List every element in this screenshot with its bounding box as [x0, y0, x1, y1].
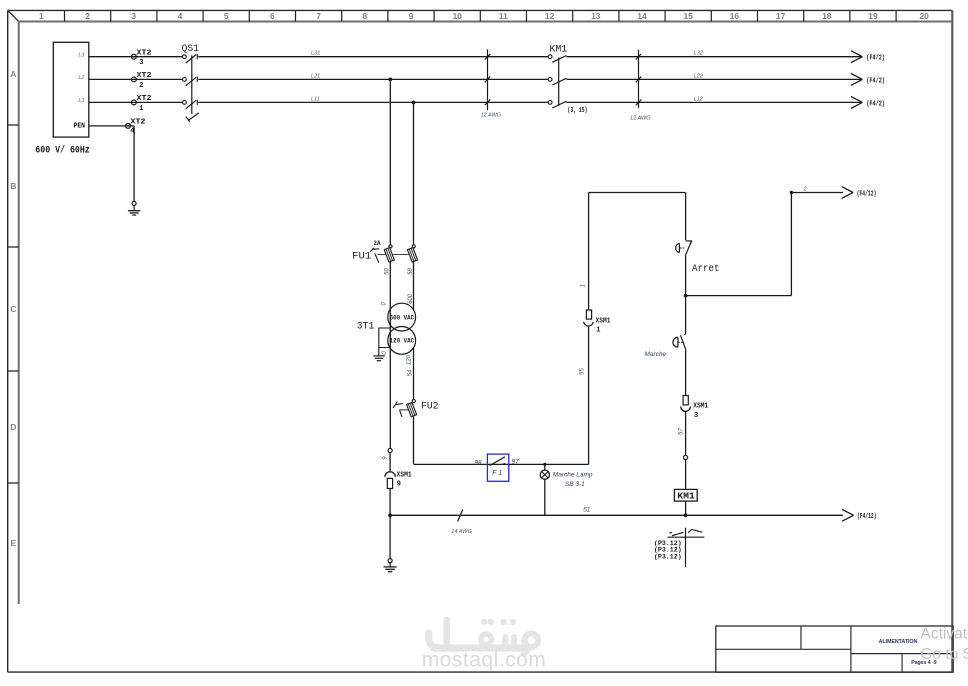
svg-text:2: 2	[139, 82, 143, 90]
off-page arrow (F4/12) bottom	[842, 509, 876, 521]
node lamp top	[543, 463, 546, 466]
svg-text:7: 7	[316, 11, 321, 21]
pushbutton Arret NC contact	[685, 241, 692, 256]
svg-text:3: 3	[131, 11, 136, 21]
svg-text:FU1: FU1	[352, 250, 371, 262]
node riser top	[790, 191, 793, 194]
wire XSM1-9 to bottom line	[389, 489, 391, 516]
svg-text:2A: 2A	[374, 240, 381, 247]
wire riser	[790, 193, 792, 296]
connector XSM1:3 pin	[683, 396, 688, 405]
svg-text:XT2: XT2	[131, 118, 146, 126]
transformer 3T1 primary winding	[388, 303, 416, 331]
svg-text:15: 15	[683, 11, 693, 21]
title block divider v2	[850, 626, 852, 672]
node L21 junction	[388, 78, 392, 82]
cable marker tick	[636, 100, 641, 106]
wire 58 drop	[413, 102, 415, 244]
svg-text:50: 50	[384, 268, 390, 275]
svg-text:SB 3-1: SB 3-1	[565, 481, 585, 488]
fuse FU2 lever	[393, 402, 403, 417]
wire PEN box to terminal	[89, 125, 134, 127]
svg-text:L1: L1	[78, 98, 84, 104]
KM1 contact mirror bar	[668, 536, 705, 538]
wire Arret to junction	[685, 256, 687, 296]
svg-text:L3: L3	[78, 52, 85, 58]
svg-text:0: 0	[381, 301, 387, 305]
svg-text:(3, 15): (3, 15)	[568, 107, 588, 115]
svg-text:9: 9	[409, 11, 414, 21]
terminal XT2:1	[132, 100, 137, 105]
ground transformer	[373, 348, 385, 361]
svg-text:XT2: XT2	[137, 72, 152, 80]
off-page arrow (F4/12) top	[842, 187, 877, 199]
wire down to XSM1-1	[588, 193, 590, 311]
svg-text:Activate W: Activate W	[921, 626, 968, 643]
cable marker tick	[636, 54, 641, 60]
watermark mostaql logo	[429, 619, 538, 655]
wire lamp to bottom line	[544, 479, 546, 515]
wire phase line left of KM1	[198, 78, 548, 80]
svg-text:XSM1: XSM1	[596, 317, 611, 325]
fuse FU2 body	[407, 399, 417, 416]
row divider lines	[8, 125, 19, 483]
cable marker line 12AWG right	[638, 50, 640, 108]
svg-text:(F4/12): (F4/12)	[857, 190, 877, 198]
svg-text:9: 9	[397, 481, 401, 489]
wire phase line right of KM1	[566, 101, 862, 103]
svg-text:(F4/2): (F4/2)	[866, 77, 885, 85]
fuse FU1 linkage	[377, 254, 410, 256]
svg-text:L22: L22	[694, 73, 703, 79]
svg-text:3: 3	[694, 412, 698, 420]
svg-text:120 VAC: 120 VAC	[390, 337, 415, 344]
svg-text:D: D	[10, 422, 16, 432]
svg-text:L2: L2	[78, 75, 84, 81]
QS1 pole	[183, 54, 198, 63]
KM1 linkage bar	[558, 58, 560, 106]
overload contact F1 blade	[490, 457, 506, 466]
svg-text:12 AWG: 12 AWG	[481, 113, 502, 119]
svg-text:C: C	[10, 304, 16, 314]
label XSM1 9	[397, 472, 412, 489]
svg-text:XSM1: XSM1	[693, 403, 708, 411]
wire Marche to XSM1-3	[685, 349, 687, 395]
svg-text:1: 1	[139, 105, 143, 113]
svg-text:11: 11	[499, 11, 508, 21]
svg-text:KM1: KM1	[677, 492, 695, 502]
fuse FU1 pole a	[384, 245, 394, 262]
ground bottom neutral	[384, 559, 397, 572]
wire L1 box to QS1	[89, 101, 183, 103]
border frame right edge	[951, 10, 953, 672]
label XSM1 3	[693, 403, 708, 420]
svg-text:120: 120	[407, 354, 413, 365]
cable marker tick	[485, 54, 490, 60]
wire 50 segment	[389, 262, 391, 449]
svg-text:mostaql.com: mostaql.com	[422, 649, 547, 672]
column strip bottom line	[18, 21, 952, 23]
wire 58 segment	[413, 262, 415, 311]
wire 55	[588, 327, 590, 465]
wire phase line left of KM1	[198, 56, 548, 58]
lamp Marche Lamp SB3-1	[540, 470, 549, 479]
svg-text:L31: L31	[311, 51, 320, 57]
cable marker line 12AWG left	[487, 49, 489, 110]
svg-text:(F4/2): (F4/2)	[866, 55, 885, 63]
svg-text:14 AWG: 14 AWG	[451, 529, 472, 535]
svg-text:XSM1: XSM1	[397, 472, 412, 480]
svg-text:L21: L21	[311, 73, 320, 79]
svg-text:(F4/2): (F4/2)	[866, 100, 885, 108]
column numbers 1-20	[39, 11, 929, 21]
svg-text:(P3.12): (P3.12)	[654, 553, 682, 560]
svg-text:F 1: F 1	[492, 470, 502, 477]
overload contact F1 box	[487, 454, 508, 481]
svg-text:600 V/ 60Hz: 600 V/ 60Hz	[35, 144, 90, 156]
KM1 main contact	[548, 55, 566, 63]
fuse FU1 lever	[370, 248, 379, 263]
wire L3 box to QS1	[89, 56, 183, 58]
svg-text:L32: L32	[694, 51, 703, 57]
wire 97-98 control line	[414, 463, 589, 465]
terminal XT2:2	[132, 77, 137, 82]
node L11 junction	[412, 101, 416, 105]
svg-text:L12: L12	[694, 96, 703, 102]
svg-text:97: 97	[512, 459, 520, 466]
QS1 handle	[186, 113, 199, 122]
wire 51 bottom line	[390, 514, 843, 516]
source box 600V	[53, 42, 89, 137]
title block divider v3	[901, 654, 903, 673]
wire to XSM1-9	[389, 453, 391, 472]
wire junction to riser	[686, 295, 792, 297]
QS1 linkage bar	[191, 55, 193, 114]
cable marker tick	[485, 77, 490, 83]
svg-text:1: 1	[39, 11, 44, 21]
terminal point wire 9	[388, 448, 392, 452]
connector XSM1:9 pin	[387, 478, 392, 488]
terminal XT2:3	[132, 54, 137, 59]
QS1 pole	[183, 77, 198, 86]
wire 57 lower	[685, 460, 687, 490]
svg-text:1: 1	[581, 284, 587, 287]
row strip inner line	[18, 22, 20, 605]
svg-text:600: 600	[408, 293, 414, 304]
svg-text:0: 0	[382, 351, 388, 355]
svg-text:B: B	[10, 181, 16, 191]
KM1 main contact	[548, 101, 566, 109]
title block divider h1	[716, 648, 851, 650]
wire riser to arrow	[791, 192, 843, 194]
svg-text:PEN: PEN	[74, 123, 86, 131]
svg-text:Marche Lamp: Marche Lamp	[553, 472, 593, 479]
KM1 mirror NC contact	[688, 529, 702, 533]
node coil bottom junction	[684, 513, 688, 517]
wire below FU2	[413, 417, 415, 464]
svg-text:2: 2	[85, 11, 90, 21]
KM1 mirror NO contact	[669, 532, 683, 536]
svg-text:3: 3	[139, 59, 143, 67]
svg-text:6: 6	[270, 11, 275, 21]
border corner diagonal	[8, 10, 19, 21]
wire phase line right of KM1	[566, 78, 862, 80]
svg-text:10: 10	[452, 11, 462, 21]
connector XSM1:9 socket arc	[385, 472, 395, 477]
svg-text:51: 51	[583, 507, 591, 514]
svg-text:5: 5	[224, 11, 229, 21]
svg-text:20: 20	[919, 11, 929, 21]
connector XSM1:3 socket arc	[681, 407, 691, 412]
svg-text:18: 18	[822, 11, 832, 21]
node seal-in junction	[684, 294, 688, 298]
svg-text:A: A	[10, 69, 16, 79]
column divider lines	[65, 10, 897, 21]
KM1 main contact	[548, 78, 566, 86]
pushbutton Marche actuator	[673, 337, 684, 347]
svg-text:9: 9	[383, 456, 389, 460]
wire PEN down	[133, 126, 135, 201]
wire 57 upper	[685, 411, 687, 455]
wire neutral to ground	[389, 515, 391, 558]
wire 54 segment	[413, 348, 415, 400]
svg-text:1: 1	[596, 327, 600, 335]
svg-text:(F4/12): (F4/12)	[857, 513, 877, 521]
transformer 3T1 secondary winding	[388, 327, 416, 355]
svg-text:FU2: FU2	[421, 400, 439, 412]
off-page arrow (F4/2)	[851, 96, 885, 108]
cross reference (P3.12) list	[654, 540, 682, 561]
wire top control line	[589, 192, 686, 194]
svg-text:Marche: Marche	[645, 351, 667, 358]
wire Arret drop	[685, 193, 687, 241]
svg-text:3T1: 3T1	[357, 321, 375, 333]
terminal XT2:4	[126, 124, 131, 129]
wire coil to bottom line	[685, 501, 687, 515]
svg-text:13: 13	[591, 11, 601, 21]
svg-text:4: 4	[178, 11, 183, 21]
svg-text:19: 19	[868, 11, 878, 21]
svg-text:17: 17	[776, 11, 786, 21]
title block divider h2	[851, 653, 953, 655]
wire 50 drop	[389, 79, 391, 244]
wire phase line left of KM1	[198, 101, 548, 103]
svg-text:2: 2	[803, 187, 807, 193]
title block divider v1	[800, 626, 802, 649]
row letters A-E	[10, 69, 16, 548]
connector XSM1:1 socket arc	[584, 322, 594, 326]
node bottom left junction	[388, 513, 392, 517]
connector XSM1:1 pin	[586, 310, 591, 319]
wire phase line right of KM1	[566, 56, 862, 58]
cable marker 14AWG	[458, 510, 463, 522]
terminal point wire 57	[684, 455, 688, 459]
cable marker tick	[485, 100, 490, 106]
cable marker tick	[636, 77, 641, 83]
QS1 pole	[183, 100, 198, 109]
svg-text:XT2: XT2	[137, 95, 152, 103]
wire lamp stem	[544, 464, 546, 470]
label XSM1 1	[596, 317, 611, 334]
wire L2 box to QS1	[89, 78, 183, 80]
svg-text:600 VAC: 600 VAC	[390, 314, 415, 321]
svg-text:L11: L11	[311, 96, 320, 102]
transformer shield tap	[379, 328, 390, 348]
svg-text:KM1: KM1	[549, 44, 567, 55]
title block frame	[716, 626, 953, 672]
svg-text:E: E	[10, 538, 16, 548]
svg-text:98: 98	[474, 460, 482, 467]
pushbutton Marche NO contact	[681, 334, 686, 349]
wire junction to Marche	[685, 296, 687, 334]
svg-text:55: 55	[580, 368, 586, 375]
svg-text:12 AWG: 12 AWG	[630, 115, 651, 121]
svg-text:12: 12	[545, 11, 555, 21]
off-page arrow (F4/2)	[851, 51, 885, 63]
fuse FU1 pole b	[407, 245, 417, 262]
KM1 contact mirror stem	[685, 528, 687, 567]
svg-text:14: 14	[637, 11, 647, 21]
pushbutton Arret actuator	[676, 243, 685, 252]
svg-text:57: 57	[678, 428, 684, 435]
svg-text:8: 8	[362, 11, 367, 21]
svg-text:QS1: QS1	[182, 44, 200, 55]
svg-text:Arret: Arret	[692, 263, 720, 275]
svg-text:ALIMENTATION: ALIMENTATION	[879, 639, 918, 645]
coil KM1	[674, 489, 697, 501]
svg-text:XT2: XT2	[137, 49, 152, 57]
svg-text:Go to Set: Go to Set	[920, 646, 968, 663]
svg-text:54: 54	[408, 369, 414, 376]
fuse FU2 linkage	[399, 409, 409, 411]
off-page arrow (F4/2)	[851, 73, 885, 85]
svg-text:16: 16	[730, 11, 740, 21]
ground PEN	[128, 201, 140, 215]
